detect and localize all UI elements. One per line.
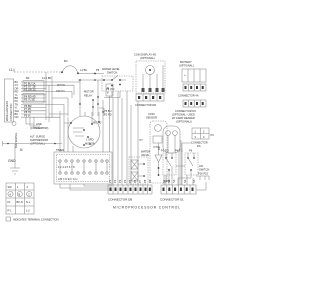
wire L1 dashed main feed: [14, 69, 62, 72]
svg-text:CONNECTION: CONNECTION: [9, 103, 13, 121]
bus wire labels: [104, 109, 112, 117]
vertical text left of N: [14, 133, 18, 148]
svg-text:TIMER: TIMER: [56, 148, 64, 152]
svg-text:VALVE: VALVE: [141, 153, 149, 157]
node CONNECTOR DA label: [191, 141, 208, 149]
connector DB strip bottom: [108, 185, 152, 194]
wires harness down to timer: [46, 104, 73, 152]
svg-text:MC TO: MC TO: [93, 121, 101, 125]
bracket right of DL: [196, 176, 209, 180]
wire label BK: [26, 59, 100, 80]
svg-text:P5: P5: [96, 68, 100, 72]
node WATER LEVEL SWITCH label: [102, 67, 120, 75]
water level switch contacts: [104, 76, 126, 81]
node CONNECTOR DD label: [135, 103, 156, 107]
svg-text:1: 1: [17, 185, 19, 189]
wire L1 hump crossover: [62, 66, 78, 73]
svg-text:N4: N4: [183, 179, 187, 183]
coin sensor outline: [150, 121, 167, 183]
svg-text:P3: P3: [211, 133, 215, 137]
water valve coil 1: [131, 160, 138, 169]
motor relay label: [84, 90, 94, 98]
svg-text:CONNECTOR 4A: CONNECTOR 4A: [178, 94, 199, 98]
svg-text:P4: P4: [123, 179, 127, 183]
svg-text:(OPTIONAL): (OPTIONAL): [140, 56, 155, 60]
node WATER VALVE label: [141, 150, 150, 158]
svg-text:DA: DA: [197, 144, 201, 148]
svg-text:WATER LEVEL: WATER LEVEL: [102, 67, 120, 71]
svg-text:ALT. SURGE: ALT. SURGE: [30, 135, 45, 139]
svg-text:BK-N: BK-N: [17, 200, 23, 204]
pilot lamp symbol: [12, 122, 16, 126]
svg-text:P7: P7: [138, 179, 142, 183]
wires down to DL strip: [164, 140, 193, 185]
timer terminals row1: [59, 160, 108, 162]
wires motor to relay: [85, 112, 99, 124]
svg-text:P3 OR 3C: P3 OR 3C: [24, 88, 36, 92]
wires timer bottom routing: [60, 184, 112, 190]
connector DA box: [192, 128, 209, 139]
svg-text:BU: BU: [64, 59, 68, 63]
unbalance switch rounded: [163, 126, 180, 153]
svg-text:(OPTIONAL): (OPTIONAL): [179, 64, 194, 68]
svg-text:P5: P5: [128, 179, 132, 183]
node MICROPROCESSOR CONTROL label: [113, 206, 181, 210]
svg-text:(OPTIONAL- USED: (OPTIONAL- USED: [172, 113, 195, 117]
svg-text:4: 4: [203, 135, 205, 139]
node COIN DISPLAY label: [134, 53, 156, 61]
junction dots on N: [7, 143, 56, 145]
coin display pins: [142, 88, 165, 92]
node CONNECTOR DC label: [172, 109, 196, 124]
svg-text:P6: P6: [133, 179, 137, 183]
svg-text:P-1: P-1: [8, 209, 13, 213]
connector DL strip bottom: [161, 185, 196, 194]
node N label: [20, 148, 23, 152]
harness bus vertical: [46, 72, 52, 122]
lid switch 2 dashed box: [185, 153, 198, 175]
vertical bus wires center: [113, 91, 131, 185]
node GRN label: [164, 179, 170, 183]
svg-text:SWITCH: SWITCH: [199, 168, 209, 172]
svg-text:BK: BK: [26, 76, 30, 80]
timer contact stems: [60, 162, 107, 172]
svg-text:(OPTIONAL)): (OPTIONAL)): [176, 120, 192, 124]
svg-text:P2: P2: [113, 179, 117, 183]
timer internal labels: [58, 165, 77, 181]
svg-text:P1: P1: [108, 179, 112, 183]
wire relay to bus: [99, 108, 104, 116]
connector harness block outline: [5, 79, 14, 122]
wire coin sensor bus: [137, 101, 139, 185]
node LID SWITCH label: [199, 164, 209, 172]
wires DA to DL: [179, 143, 192, 185]
svg-text:P5 YL 5E: P5 YL 5E: [24, 98, 35, 102]
svg-text:WATER: WATER: [141, 150, 150, 154]
svg-text:+ -: + -: [184, 74, 187, 77]
svg-text:SWITCH: SWITCH: [107, 71, 117, 75]
wire relay verticals: [80, 80, 103, 116]
timer console box: [54, 152, 112, 184]
svg-text:1 SPD: 1 SPD: [86, 138, 94, 142]
node COIN SENSOR label: [146, 112, 157, 120]
small box DIR TO: [56, 83, 65, 93]
svg-text:SUPPRESSOR: SUPPRESSOR: [30, 138, 48, 142]
svg-text:P9: P9: [148, 179, 152, 183]
svg-text:BLK WIRING: BLK WIRING: [14, 133, 18, 148]
svg-text:L1 BU: L1 BU: [80, 68, 87, 72]
svg-text:N-L: N-L: [26, 200, 31, 204]
svg-text:RELAY: RELAY: [84, 94, 93, 98]
wires down from water level switch: [104, 91, 120, 98]
svg-text:SW: SW: [8, 185, 13, 189]
battery box: [182, 69, 206, 82]
wire gnd drop: [14, 144, 16, 169]
node LINE (CONNECTOR): [30, 122, 49, 130]
connector DC strip: [183, 100, 206, 107]
svg-text:N5: N5: [192, 179, 196, 183]
svg-text:WIRE HARNESS: WIRE HARNESS: [5, 101, 9, 121]
coin sensor internal box: [153, 136, 162, 143]
svg-text:L1: L1: [9, 68, 13, 72]
svg-text:L-2: L-2: [26, 209, 30, 213]
svg-text:N3: N3: [172, 179, 176, 183]
svg-text:CONNECTOR DC: CONNECTOR DC: [175, 109, 196, 113]
timer terminals row2: [59, 172, 108, 174]
svg-text:INDICATES TERMINAL CONNECTION: INDICATES TERMINAL CONNECTION: [13, 218, 59, 222]
motor internal windings: [64, 123, 84, 136]
svg-text:W/ CARD READER: W/ CARD READER: [172, 116, 195, 120]
svg-text:2: 2: [203, 130, 205, 134]
wires relay to timer right side: [103, 96, 110, 152]
svg-text:P8 VIO: P8 VIO: [106, 87, 114, 91]
node CONNECTOR 4A label: [178, 94, 199, 98]
harness sub box lower: [23, 94, 44, 104]
ground symbol: [10, 168, 20, 174]
svg-text:P16 P15: P16 P15: [198, 172, 209, 176]
svg-text:GND: GND: [8, 159, 16, 163]
svg-text:2: 2: [27, 185, 29, 189]
svg-text:C: C: [28, 192, 30, 196]
wire DL strip right exit: [196, 182, 206, 190]
chart row3 text: [8, 200, 31, 204]
lid switch 1 dashed box: [163, 153, 176, 175]
svg-text:COIN: COIN: [148, 112, 155, 116]
svg-text:BATTERY: BATTERY: [180, 60, 192, 64]
svg-text:12-2 BK: 12-2 BK: [42, 76, 52, 80]
svg-text:P1 TO: P1 TO: [161, 149, 168, 153]
node GND label: [8, 159, 16, 163]
svg-text:P9 VI: P9 VI: [24, 113, 31, 117]
water level switch dashed box: [102, 76, 133, 91]
junction dots relay: [79, 79, 104, 113]
svg-text:P2 RD: P2 RD: [104, 113, 112, 117]
node DRIVE MOTOR circle: [68, 116, 100, 148]
switch state chart table: [6, 183, 34, 214]
svg-text:CONNECTOR DB: CONNECTOR DB: [108, 198, 132, 202]
legend checkbox: [6, 217, 11, 221]
svg-text:P6: P6: [189, 149, 193, 153]
node CONNECTOR DL label: [160, 198, 184, 202]
wires harness to relay: [46, 82, 80, 116]
svg-text:1 2 3 4 5 6 7 8: 1 2 3 4 5 6 7 8: [58, 165, 75, 169]
harness vertical text: [5, 101, 13, 121]
wire top feed row: [78, 79, 104, 81]
junction dots on L1 wire: [61, 71, 96, 74]
wire labels above lid switches: [161, 149, 193, 153]
node CONNECTOR DB label: [108, 198, 132, 202]
svg-text:A B C D E F G H: A B C D E F G H: [58, 177, 77, 181]
wire corners to line connector: [26, 117, 44, 128]
svg-text:COIN DISPLAY 4D: COIN DISPLAY 4D: [134, 53, 156, 57]
wire N neutral line: [3, 141, 63, 146]
water valve coil 2: [131, 172, 138, 181]
svg-text:N2: N2: [167, 179, 171, 183]
svg-text:CONNECTOR: CONNECTOR: [191, 141, 208, 145]
svg-text:LINE: LINE: [36, 122, 42, 126]
coin display internal wires: [143, 65, 163, 88]
svg-text:DIR TO: DIR TO: [56, 89, 65, 93]
svg-text:GN: GN: [15, 115, 19, 119]
node L1 label: [9, 68, 13, 72]
svg-text:P4 TO: P4 TO: [175, 149, 182, 153]
coin display dashed box: [136, 61, 165, 93]
chart symbol circles: [8, 191, 13, 196]
svg-text:(CONNECTOR): (CONNECTOR): [30, 126, 49, 130]
small junction box: [106, 84, 113, 96]
svg-text:A: A: [9, 192, 11, 196]
svg-text:F1: F1: [8, 200, 12, 204]
coin sensor top circle: [155, 125, 162, 132]
svg-text:B: B: [19, 192, 21, 196]
svg-text:P3: P3: [118, 179, 122, 183]
svg-text:P5 BU: P5 BU: [104, 109, 112, 113]
svg-text:CONNECTOR DL: CONNECTOR DL: [160, 198, 184, 202]
svg-text:MOTOR: MOTOR: [84, 90, 94, 94]
node BATTERY label: [179, 60, 194, 68]
water valve dots: [143, 163, 145, 177]
chart row4 cells: [8, 209, 31, 213]
timer label: [56, 148, 64, 152]
alt surge suppressor label: [30, 135, 48, 146]
wire labels above DB strip: [108, 179, 196, 183]
connector 4A strip: [183, 84, 206, 91]
wire L1 to water level switch: [78, 73, 104, 75]
chart header text: [8, 185, 29, 189]
harness row stub wires: [21, 82, 46, 117]
svg-text:P8: P8: [143, 179, 147, 183]
harness row wires and labels: [15, 80, 19, 119]
svg-text:MICROPROCESSOR CONTROL: MICROPROCESSOR CONTROL: [113, 206, 181, 210]
harness sub box upper: [23, 81, 44, 91]
coin display lamp circle: [146, 66, 155, 75]
svg-text:SENSOR: SENSOR: [146, 116, 157, 120]
svg-text:LID: LID: [199, 164, 203, 168]
svg-text:1: 1: [195, 130, 197, 134]
svg-text:P7: P7: [140, 138, 144, 142]
water valve dashed box: [129, 157, 148, 184]
svg-text:N: N: [20, 148, 23, 152]
connector DD strip: [136, 94, 164, 101]
svg-text:3: 3: [195, 135, 197, 139]
wires lid switch to DL: [166, 166, 191, 185]
coin sensor triangle: [155, 155, 162, 162]
